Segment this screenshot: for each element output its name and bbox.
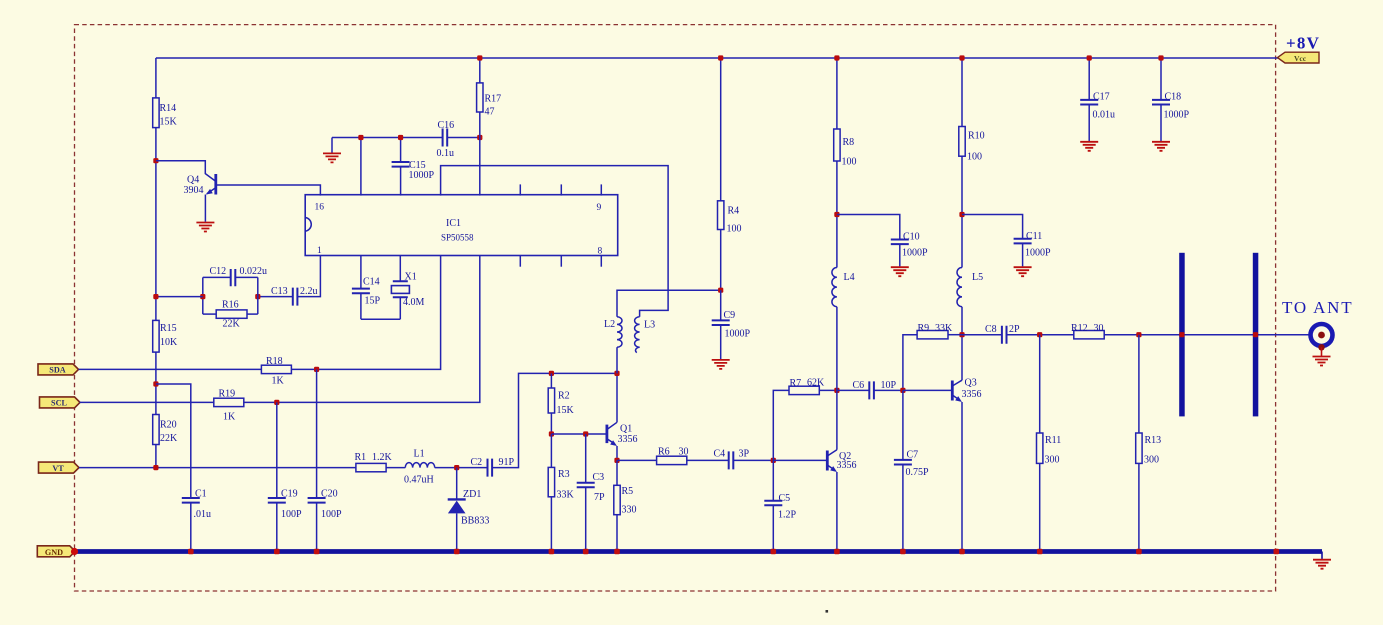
- wire Q4 emitter: [207, 188, 216, 194]
- node C4 C5 junction: [771, 458, 776, 463]
- wire C10 branch: [837, 215, 900, 240]
- svg-text:R12: R12: [1071, 323, 1088, 334]
- resistor R20: [153, 415, 159, 445]
- node Q1 base node: [549, 431, 554, 436]
- inductor L1: [405, 463, 434, 468]
- transistor Q1: [606, 425, 609, 444]
- node GND bus x1138.9: [1136, 549, 1142, 555]
- svg-text:C8: C8: [985, 324, 997, 335]
- svg-text:Q1: Q1: [620, 424, 632, 435]
- svg-text:100P: 100P: [321, 509, 342, 520]
- svg-text:1.2K: 1.2K: [372, 452, 393, 463]
- artifact dot: [826, 610, 829, 613]
- node R17 top rail: [477, 55, 482, 60]
- svg-text:IC1: IC1: [446, 218, 461, 229]
- wire C11 branch: [962, 215, 1023, 239]
- node SCL C19: [274, 400, 279, 405]
- wire Vcc top rail: [156, 57, 1280, 59]
- svg-text:R14: R14: [160, 103, 177, 114]
- svg-text:15K: 15K: [160, 117, 178, 128]
- svg-text:R8: R8: [843, 137, 855, 148]
- svg-text:R6: R6: [658, 447, 670, 458]
- resistor R7: [789, 386, 819, 394]
- svg-text:R3: R3: [558, 469, 570, 480]
- svg-text:1K: 1K: [223, 412, 236, 423]
- transistor Q4 base bar: [214, 174, 217, 195]
- wire R9 to collector: [948, 334, 962, 336]
- resistor R12: [1074, 331, 1104, 339]
- node C3 top: [583, 431, 588, 436]
- svg-text:R18: R18: [266, 356, 283, 367]
- svg-text:C16: C16: [438, 120, 455, 131]
- svg-text:300: 300: [1144, 455, 1159, 466]
- node pin2 bypass: [358, 135, 363, 140]
- node C8 R11: [1037, 332, 1042, 337]
- svg-text:C18: C18: [1165, 92, 1182, 103]
- antenna connector: [1311, 324, 1333, 346]
- node R4 top rail: [718, 55, 723, 60]
- node C12R16 right: [255, 294, 260, 299]
- capacitor C1: [182, 498, 200, 503]
- capacitor C14: [360, 256, 362, 289]
- wire Q1 emitter down: [616, 446, 618, 460]
- svg-text:62K: 62K: [807, 378, 825, 389]
- resistor R6: [657, 456, 687, 464]
- svg-text:C9: C9: [724, 310, 736, 321]
- svg-text:1: 1: [317, 246, 322, 256]
- varactor ZD1: [456, 468, 458, 500]
- svg-text:15K: 15K: [557, 405, 575, 416]
- svg-text:0.022u: 0.022u: [240, 266, 268, 277]
- wire R10 to L5: [961, 156, 963, 267]
- wire R7 branch: [773, 390, 789, 460]
- svg-text:30: 30: [679, 447, 689, 458]
- ground C17: [1080, 142, 1098, 151]
- resistor R10: [961, 58, 963, 127]
- inductor L4: [832, 268, 837, 307]
- svg-text:2P: 2P: [1009, 324, 1020, 335]
- node bar2 junction: [1253, 332, 1258, 337]
- wire SDA line: [79, 368, 262, 370]
- node C6 C7 junction: [900, 388, 905, 393]
- svg-text:0.01u: 0.01u: [1093, 110, 1116, 121]
- svg-text:33K: 33K: [557, 490, 575, 501]
- svg-text:C12: C12: [210, 266, 227, 277]
- ground bus right end: [1321, 552, 1323, 559]
- node GND bus x1276.3: [1274, 549, 1280, 555]
- svg-text:SDA: SDA: [49, 366, 65, 375]
- node GND bus x456.7: [454, 549, 460, 555]
- svg-text:1K: 1K: [272, 376, 285, 387]
- IC bottom pin stubs: [519, 256, 521, 267]
- node R12 R13: [1136, 332, 1141, 337]
- node GND bus x276.8: [274, 549, 280, 555]
- capacitor C2: [488, 459, 493, 477]
- capacitor C4: [729, 451, 734, 469]
- ground bypass rail: [331, 138, 333, 153]
- ground antenna: [1313, 357, 1331, 366]
- node C12R16 left: [200, 294, 205, 299]
- capacitor C13: [293, 288, 298, 306]
- svg-text:1000P: 1000P: [1025, 248, 1051, 259]
- svg-text:3356: 3356: [837, 460, 857, 471]
- svg-text:L4: L4: [844, 272, 855, 283]
- svg-text:SCL: SCL: [51, 399, 67, 408]
- wire R7 to collector: [819, 389, 837, 391]
- svg-text:L3: L3: [644, 320, 655, 331]
- IC U1 body: [305, 195, 618, 256]
- capacitor C15: [400, 138, 402, 163]
- wire C12R16 frame right: [257, 277, 259, 314]
- ground C10: [891, 267, 909, 276]
- capacitor C7: [902, 390, 904, 460]
- wire C6 left: [837, 389, 869, 391]
- wire emitter to R6: [617, 459, 657, 461]
- svg-text:15P: 15P: [365, 296, 381, 307]
- svg-text:Q3: Q3: [965, 378, 977, 389]
- node R9 collector: [959, 332, 964, 337]
- wire Q2 emitter down: [836, 472, 838, 549]
- svg-text:R11: R11: [1045, 435, 1061, 446]
- svg-text:30: 30: [1094, 323, 1104, 334]
- node C9 top: [718, 288, 723, 293]
- svg-text:0.75P: 0.75P: [906, 467, 930, 478]
- ground C9: [712, 360, 730, 369]
- svg-text:C1: C1: [195, 489, 207, 500]
- capacitor C8: [1002, 326, 1007, 344]
- inductor L5: [957, 268, 962, 307]
- node Q1 emitter: [614, 458, 619, 463]
- wire C4 to base node: [733, 459, 773, 461]
- svg-text:100: 100: [967, 152, 982, 163]
- inductor L3: [635, 317, 640, 347]
- capacitor C20: [308, 498, 326, 503]
- node R2 top: [549, 371, 554, 376]
- wire VT line: [79, 467, 356, 469]
- capacitor C5: [772, 460, 774, 500]
- svg-text:R17: R17: [485, 94, 502, 105]
- wire C20 branch: [316, 369, 318, 498]
- wire block to left vertical: [156, 296, 203, 298]
- wire SCL line: [80, 401, 214, 403]
- stub line bar 1: [1179, 253, 1185, 417]
- ground C18: [1152, 142, 1170, 151]
- resistor R17: [479, 58, 481, 83]
- wire Q3 emitter down: [961, 402, 963, 549]
- transistor Q2: [826, 451, 829, 471]
- wire C1 branch: [156, 384, 191, 498]
- node left vertical y296: [153, 294, 158, 299]
- svg-text:10K: 10K: [160, 337, 178, 348]
- wire Q3 base wire: [903, 389, 951, 391]
- svg-text:R2: R2: [558, 391, 570, 402]
- resistor R5: [616, 460, 618, 485]
- svg-text:R9: R9: [918, 323, 930, 334]
- port GND tag: [37, 546, 75, 557]
- inductor L2: [616, 347, 618, 373]
- svg-text:C7: C7: [907, 450, 919, 461]
- node C17 rail: [1087, 55, 1092, 60]
- IC top pin stubs: [519, 184, 521, 195]
- svg-text:C20: C20: [321, 489, 338, 500]
- node GND bus x962: [959, 549, 965, 555]
- resistor R19: [214, 398, 244, 406]
- svg-text:C4: C4: [714, 449, 726, 460]
- svg-text:R1: R1: [355, 452, 367, 463]
- capacitor C17: [1088, 58, 1090, 100]
- svg-text:C10: C10: [903, 232, 920, 243]
- svg-text:330: 330: [622, 505, 637, 516]
- wire C12R16 frame left: [202, 277, 204, 314]
- svg-text:0.1u: 0.1u: [437, 148, 455, 159]
- resistor R13: [1138, 335, 1140, 433]
- wire collector to C8: [962, 334, 1002, 336]
- node ZD1 top: [454, 465, 459, 470]
- resistor R14: [153, 98, 159, 128]
- resistor R3: [550, 434, 552, 467]
- capacitor C11: [1014, 239, 1032, 244]
- wire bypass rail y137: [332, 137, 443, 139]
- resistor R8: [836, 58, 838, 129]
- node x156 y384: [153, 381, 158, 386]
- frame: dashed board outline: [75, 25, 1276, 591]
- resistor R16: [203, 313, 216, 315]
- node SDA C20: [314, 367, 319, 372]
- node GND bus x902.9: [900, 549, 906, 555]
- node R10 top rail: [959, 55, 964, 60]
- svg-text:9: 9: [597, 203, 602, 213]
- wire IC pin4 to L3: [441, 166, 668, 317]
- svg-text:R16: R16: [222, 300, 239, 311]
- node GND bus x551.4: [549, 549, 555, 555]
- resistor R4: [720, 58, 722, 201]
- capacitor C6: [869, 381, 874, 399]
- svg-text:R7: R7: [790, 378, 802, 389]
- capacitor C10: [891, 240, 909, 245]
- svg-text:L5: L5: [972, 272, 983, 283]
- stub line bar 2: [1253, 253, 1259, 417]
- svg-text:R15: R15: [160, 323, 177, 334]
- svg-text:3356: 3356: [618, 434, 638, 445]
- node Q4 base junction: [153, 158, 158, 163]
- svg-text:X1: X1: [405, 272, 417, 283]
- svg-text:R5: R5: [622, 486, 634, 497]
- GND bus: [74, 549, 1322, 554]
- wire C13 left: [258, 296, 293, 298]
- wire R17 to IC pin: [479, 112, 481, 196]
- wire SDA to IC: [291, 256, 440, 370]
- svg-text:4.0M: 4.0M: [403, 297, 425, 308]
- wire Q1 collector up: [616, 373, 618, 422]
- svg-text:C11: C11: [1026, 231, 1042, 242]
- wire C14 X1 bottom: [361, 318, 400, 320]
- capacitor C18: [1160, 58, 1162, 100]
- node C15 top: [398, 135, 403, 140]
- svg-text:0.47uH: 0.47uH: [404, 475, 434, 486]
- port SCL tag: [40, 397, 81, 408]
- wire left vertical x156: [155, 128, 157, 321]
- resistor R2: [550, 373, 552, 388]
- node C18 rail: [1158, 55, 1163, 60]
- svg-text:2.2u: 2.2u: [300, 286, 318, 297]
- node L2 bottom: [614, 371, 619, 376]
- node GND bus x836.9: [834, 549, 840, 555]
- svg-text:R19: R19: [219, 389, 236, 400]
- svg-text:1000P: 1000P: [902, 248, 928, 259]
- port VT tag: [39, 462, 80, 473]
- svg-text:SP50558: SP50558: [441, 233, 474, 243]
- wire Q1 base wire: [551, 433, 606, 435]
- svg-text:R10: R10: [968, 131, 985, 142]
- node C10 tap: [834, 212, 839, 217]
- svg-text:1000P: 1000P: [1164, 110, 1190, 121]
- wire Q2 collector up: [836, 307, 838, 450]
- wire Q2 base wire: [773, 459, 826, 461]
- wire C19 branch: [276, 402, 278, 498]
- svg-text:GND: GND: [45, 548, 63, 557]
- svg-text:C2: C2: [471, 457, 483, 468]
- node GND bus x190.8: [188, 549, 194, 555]
- svg-text:C14: C14: [363, 277, 380, 288]
- node GND bus x773.3: [771, 549, 777, 555]
- node GND bus x617: [614, 549, 620, 555]
- capacitor C9: [720, 290, 722, 320]
- svg-text:100: 100: [727, 224, 742, 235]
- capacitor C12: [203, 276, 231, 278]
- capacitor C16: [443, 129, 448, 147]
- wire L1 to C2: [435, 467, 488, 469]
- resistor R11: [1039, 335, 1041, 433]
- wire C8 right: [1007, 334, 1074, 336]
- svg-text:3P: 3P: [739, 449, 750, 460]
- crystal X1: [399, 256, 401, 282]
- wire R9 branch: [903, 335, 917, 391]
- svg-text:22K: 22K: [223, 319, 241, 330]
- svg-text:33K: 33K: [935, 323, 953, 334]
- svg-text:22K: 22K: [160, 433, 178, 444]
- transistor Q3: [951, 381, 954, 401]
- svg-text:3904: 3904: [184, 185, 204, 196]
- node GND bus x585.7: [583, 549, 589, 555]
- wire R6 to C4: [687, 459, 729, 461]
- svg-text:Q4: Q4: [187, 175, 199, 186]
- svg-text:BB833: BB833: [461, 516, 489, 527]
- svg-text:VT: VT: [52, 464, 64, 473]
- ground Q4 emitter: [196, 223, 214, 232]
- node R7 collector: [834, 388, 839, 393]
- svg-text:16: 16: [315, 203, 325, 213]
- wire R1 to L1: [386, 467, 405, 469]
- node R8 top rail: [834, 55, 839, 60]
- wire L5 to Q3: [961, 307, 963, 381]
- svg-text:100P: 100P: [281, 509, 302, 520]
- port Vcc tag: [1278, 52, 1320, 63]
- svg-text:R4: R4: [728, 206, 740, 217]
- wire R14 top: [155, 58, 157, 98]
- svg-text:+8V: +8V: [1286, 34, 1320, 53]
- node VT x156: [153, 465, 158, 470]
- svg-text:C17: C17: [1093, 92, 1110, 103]
- wire IC pin1 down: [297, 256, 320, 297]
- ground C11: [1014, 267, 1032, 276]
- svg-text:TO ANT: TO ANT: [1282, 298, 1353, 317]
- resistor R18: [261, 365, 291, 373]
- node bar1 junction: [1179, 332, 1184, 337]
- svg-text:300: 300: [1045, 455, 1060, 466]
- svg-text:L1: L1: [414, 449, 425, 460]
- svg-text:C6: C6: [853, 380, 865, 391]
- wire R8 to L4: [836, 161, 838, 268]
- wire SCL to IC: [244, 256, 480, 403]
- wire Q4 collector: [156, 161, 215, 181]
- wire IC pin2 up: [360, 138, 362, 196]
- capacitor C19: [268, 498, 286, 503]
- wire Q4 base to IC pin16: [216, 185, 321, 196]
- wire R4 to C9 node: [720, 230, 722, 291]
- svg-text:1.2P: 1.2P: [778, 510, 797, 521]
- svg-text:L2: L2: [604, 319, 615, 330]
- svg-text:1000P: 1000P: [725, 329, 751, 340]
- svg-text:Vcc: Vcc: [1294, 54, 1307, 63]
- svg-text:C19: C19: [281, 489, 298, 500]
- svg-text:3356: 3356: [962, 389, 982, 400]
- svg-text:7P: 7P: [594, 492, 605, 503]
- svg-text:47: 47: [485, 107, 495, 118]
- node GND bus x1039.7: [1037, 549, 1043, 555]
- capacitor C3: [585, 434, 587, 483]
- svg-text:C3: C3: [593, 472, 605, 483]
- resistor R1: [356, 463, 386, 471]
- wire R15 to VT branch: [155, 352, 157, 414]
- resistor R9: [917, 331, 948, 339]
- wire R12 to antenna: [1104, 334, 1311, 336]
- node GND bus x316.6: [314, 549, 320, 555]
- svg-text:.01u: .01u: [194, 509, 212, 520]
- svg-text:ZD1: ZD1: [463, 489, 481, 500]
- resistor R15: [153, 320, 159, 352]
- svg-text:R13: R13: [1145, 435, 1162, 446]
- node C16 right R17: [477, 135, 482, 140]
- node C11 tap: [959, 212, 964, 217]
- svg-text:C13: C13: [271, 286, 288, 297]
- svg-text:8: 8: [598, 247, 603, 257]
- svg-text:91P: 91P: [499, 457, 515, 468]
- port SDA tag: [38, 364, 79, 375]
- svg-text:R20: R20: [160, 420, 177, 431]
- svg-text:1000P: 1000P: [409, 170, 435, 181]
- wire C6 right: [874, 389, 903, 391]
- svg-text:100: 100: [842, 157, 857, 168]
- svg-text:10P: 10P: [881, 380, 897, 391]
- node GND tag dot: [71, 548, 78, 555]
- svg-text:C5: C5: [779, 493, 791, 504]
- wire C2 up to bias node: [492, 373, 617, 467]
- wire R20 bottom to VT: [155, 445, 157, 468]
